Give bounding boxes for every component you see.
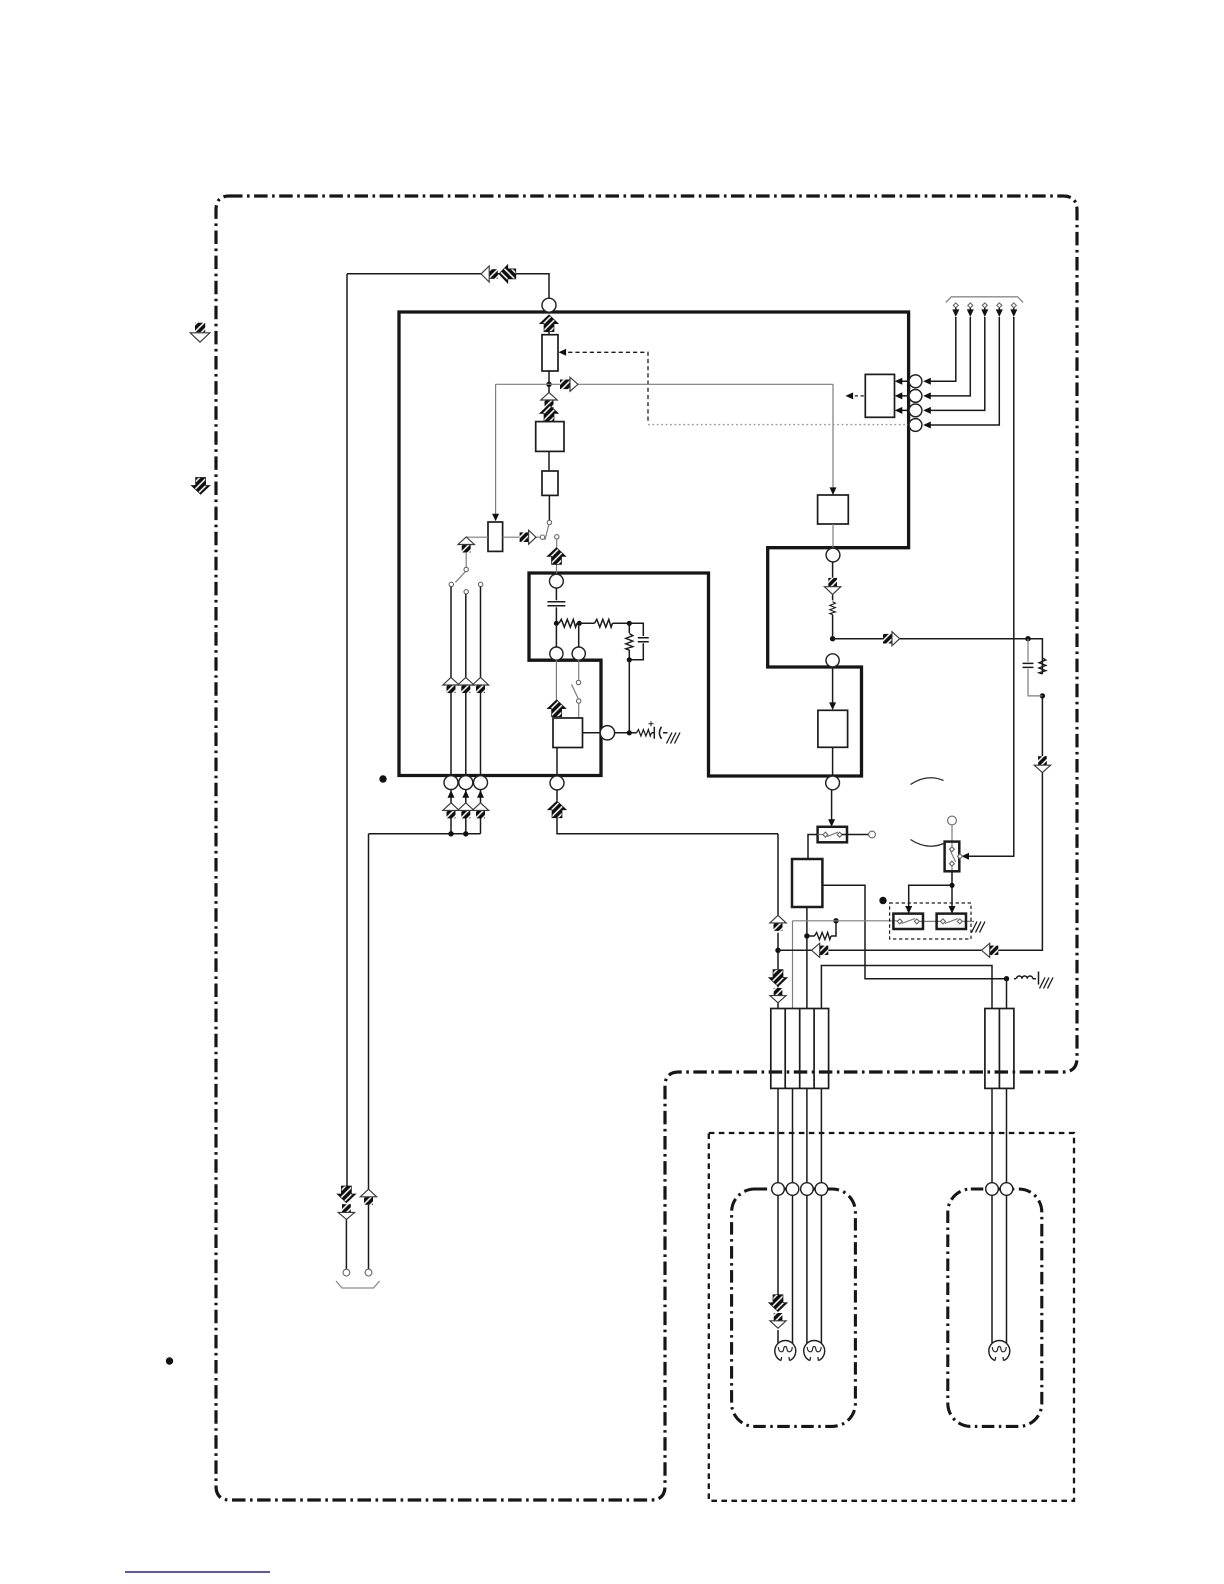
lamp housing B rounded dash-dot	[948, 1189, 1042, 1426]
switch S3 from C5 to motor box	[578, 660, 580, 680]
connector P2a hatched arrow down on W1 bottom	[337, 1186, 356, 1203]
polarized capacitor C21	[652, 727, 668, 739]
connector P1b hatched arrow left on W1	[499, 265, 516, 284]
PCB: main circuit board thick outline polygon	[399, 312, 909, 776]
comb pin diamonds and down arrows	[953, 303, 958, 308]
wire y=965.5 between CN1 cell4 and CN2 cell1	[821, 966, 992, 1009]
switch box SB1	[818, 827, 847, 843]
wire R22 to RC node	[613, 622, 630, 624]
wire K1 left to connector	[466, 537, 488, 567]
connector P13 hatched arrow up below C11	[557, 790, 778, 834]
pin circles C8 C9 C10 on PCB bottom edge	[444, 776, 458, 790]
terminal stub right of SB1	[842, 834, 869, 836]
pin circle C11	[550, 776, 564, 790]
lamp leads	[778, 1195, 1007, 1344]
pin circle C6 above edge	[826, 654, 839, 667]
node A junction dot	[546, 382, 551, 387]
resistor R25 from RL1 bottom node up to gray line	[809, 923, 836, 936]
housing pin circles	[772, 1183, 785, 1196]
pin circle C1 on PCB top edge	[542, 298, 556, 312]
pin circles C4 C5 above notch edge	[550, 647, 563, 660]
connector P1a open triangle left on W1	[481, 266, 498, 282]
relay bottom-right ground: coil + G3	[1004, 976, 1009, 981]
relay RL1 box	[792, 859, 822, 907]
connector P6b hatched arrow up	[540, 405, 559, 422]
wires below C8-C10 with up arrowheads	[451, 790, 481, 834]
dotted sense line to edge	[648, 424, 908, 426]
wire M1 bottom to C11	[556, 748, 558, 777]
connector P7 open triangle up + square, left of K1	[458, 537, 474, 553]
box B3	[818, 710, 848, 747]
wire right from node B	[833, 638, 1028, 640]
connector J10 left margin: square + open triangle down	[190, 323, 210, 343]
wire chain x=778 down to CN1	[777, 834, 779, 1009]
gray control line y=384	[496, 383, 833, 385]
dashed switch group box	[890, 903, 971, 939]
lamp housing A rounded dash-dot	[732, 1189, 856, 1426]
fuse F2	[542, 471, 558, 495]
connector CN1	[771, 1009, 829, 1089]
pin circle C2 below step edge	[826, 548, 840, 562]
wire K1 right to S1	[503, 536, 541, 538]
motor box M1	[553, 718, 583, 748]
pin circle C3 below PCB edge	[550, 574, 564, 588]
connector triple P10 below circles	[443, 803, 459, 819]
wire C7 down to switch SB1	[831, 790, 833, 821]
terminal T2	[365, 1269, 372, 1276]
node dot B	[830, 636, 835, 641]
connector P2b open triangle down on W1 bottom	[338, 1204, 354, 1219]
feed into VS1 from comb pin5	[966, 317, 1014, 856]
arrows from PCB edge into B2	[901, 381, 909, 410]
wire below C2 with connector P14 (square + open tri down)	[832, 562, 834, 636]
vertical switch VS1	[948, 816, 957, 825]
wire between R21 R22	[577, 622, 595, 624]
arcs left of VS1	[911, 778, 944, 785]
connector P17 square + open tri left	[982, 943, 999, 957]
right column upper: RC parallel	[1028, 639, 1042, 756]
gray sense line y=921	[793, 920, 975, 923]
bullet marker b1	[379, 775, 386, 782]
switch SWA	[893, 914, 923, 929]
wire RL1 right to ground chain	[822, 885, 1004, 978]
pin circle C7 below bottom edge	[826, 776, 840, 790]
bullet marker b2	[879, 897, 886, 904]
connector P6a open triangle up below node A	[541, 392, 557, 408]
RC parallel: top rail, cap branch right, resistor branch left	[629, 623, 643, 660]
connector P19 hatched arrow down + open tri down on first lead	[769, 1295, 788, 1312]
box B1 (sensor)	[818, 495, 849, 524]
wire from RC down to motor node	[628, 660, 630, 733]
bracket under terminals	[336, 1281, 380, 1288]
BORDER: outer chassis dash-dot boundary	[216, 196, 1077, 1500]
connector P3 open triangle up on W3	[360, 1189, 376, 1205]
comb bracket	[946, 297, 1023, 303]
dashed stub with left arrow from B2	[849, 395, 865, 397]
long wire y=950 to right column	[778, 773, 1042, 951]
lamp L2	[804, 1341, 825, 1361]
wire C6 down into box B3	[832, 667, 834, 703]
box U1 (regulator)	[536, 422, 564, 452]
wire C5 up to R21/R22 node	[578, 623, 581, 647]
bullet marker b3	[166, 1357, 173, 1364]
switch SWB	[937, 914, 966, 929]
wire S1 right contact down to C3	[556, 539, 558, 574]
capacitor C20 (two bars)	[547, 588, 565, 621]
footer blue rule	[125, 1571, 270, 1573]
resistor R21	[559, 619, 577, 627]
wire CN2 right cell down	[1006, 979, 1008, 1009]
wires CN1 to lamp circles	[778, 1088, 821, 1182]
wire to C4	[555, 626, 557, 647]
connector P16 open tri left + square	[812, 943, 829, 957]
wire F2 to switch contact	[548, 495, 550, 520]
wire W4: F1 to node dot	[548, 330, 550, 422]
resistor R23	[629, 732, 636, 734]
wire RL1 bottom to connector CN1	[806, 907, 808, 1009]
ground G1	[667, 733, 681, 744]
resistor R24 vertical	[830, 602, 836, 615]
connector P8 square + open triangle right	[520, 530, 536, 544]
box B2 (detector)	[865, 374, 894, 417]
lamp L1	[775, 1341, 796, 1361]
lamp L3	[989, 1341, 1010, 1361]
ground G2 after switch group	[972, 922, 986, 933]
connector J11 left margin: hatched block arrow down	[191, 478, 210, 495]
wire W2: left column lower segment to terminal	[345, 1219, 347, 1270]
wire W3: second left column	[368, 834, 370, 1269]
switch S1 contacts and blade	[547, 520, 551, 524]
drive wires into SWA SWB	[909, 871, 952, 907]
harness wires from comb pins to circles	[929, 317, 1000, 425]
relay K1 coil box	[488, 522, 503, 551]
connector triple P9 open triangles up	[443, 677, 459, 693]
three sense lines down from S2	[451, 587, 481, 776]
wire C4 down + connector P12	[555, 660, 557, 718]
dashed sense line from F1	[561, 352, 648, 422]
selector switch S2 contacts	[464, 567, 468, 571]
pin circles C12-C15 right of edge	[909, 375, 922, 388]
wire W1: top feed from left column to node A	[347, 274, 549, 1189]
gray drive line into K1	[495, 384, 497, 515]
connector P18 square + open tri down on right column	[1034, 756, 1050, 772]
connector P15 square + open triangle right	[883, 632, 900, 646]
connector CN2	[985, 1009, 1014, 1089]
wire U1 to F2	[548, 451, 550, 471]
wire SB1 left down to relay RL1	[808, 835, 818, 860]
gray vertical to CN1 cell2	[792, 921, 794, 1009]
resistor R22	[595, 619, 613, 627]
connector P4 hatched arrow up below C1	[540, 315, 559, 332]
bottom dashed enclosure	[709, 1133, 1074, 1501]
connector P5: square + open triangle right on gray line	[560, 377, 578, 391]
arrowhead into F1 right side	[559, 349, 567, 356]
connector P11 hatched arrow up	[547, 548, 566, 565]
terminal T1	[343, 1269, 350, 1276]
ground bus wire	[369, 833, 481, 835]
fuse F1	[542, 335, 558, 371]
motor circle	[600, 726, 614, 740]
gray line corner down to B1 box	[832, 384, 834, 495]
node dot on x=556	[554, 621, 559, 626]
